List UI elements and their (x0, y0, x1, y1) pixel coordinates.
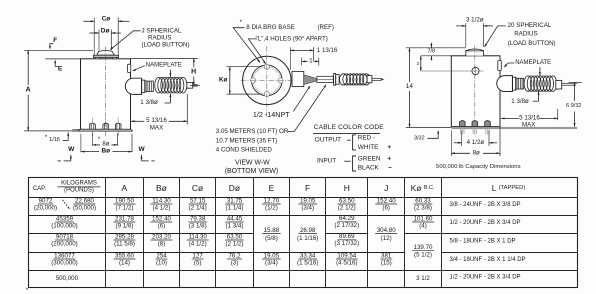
svg-text:10.7 METERS (35 FT): 10.7 METERS (35 FT) (216, 137, 278, 144)
svg-text:203.20: 203.20 (152, 233, 171, 240)
svg-text:Kø: Kø (219, 77, 228, 84)
bottom view: hex collar plates (334, 73, 336, 85)
svg-text:(REF): (REF) (318, 24, 335, 31)
svg-text:GREEN: GREEN (358, 155, 381, 162)
dimension 8 dia (right): extension lines (450, 131, 452, 157)
svg-text:(5/8): (5/8) (265, 235, 278, 242)
svg-text:NAMEPLATE: NAMEPLATE (146, 62, 182, 68)
svg-text:5 13/16: 5 13/16 (146, 117, 167, 124)
svg-text:109.54: 109.54 (337, 252, 356, 259)
svg-text:*: * (45, 135, 48, 141)
svg-text:+: + (387, 144, 391, 151)
svg-text:F: F (305, 183, 310, 193)
svg-text:63.50: 63.50 (339, 197, 355, 204)
dimension A: vertical line with arrows and label (27, 50, 29, 85)
svg-text:VIEW W-W: VIEW W-W (235, 160, 270, 167)
svg-text:3.05 METERS (10 FT) OR: 3.05 METERS (10 FT) OR (216, 128, 289, 135)
label J spherical radius (load button) with leader (111, 31, 141, 50)
right view: gland flange (513, 77, 516, 90)
dimension Co: extension lines (93, 18, 95, 55)
svg-text:(1/2): (1/2) (265, 205, 278, 212)
svg-text:A: A (26, 87, 31, 94)
bottom view: centerlines (241, 79, 293, 81)
svg-text:5/8 - 18UNF - 2B X 1 DP: 5/8 - 18UNF - 2B X 1 DP (450, 239, 516, 245)
svg-text:MAX: MAX (150, 124, 163, 131)
svg-text:Cø: Cø (102, 16, 111, 23)
dimension to hole center (420, 56, 422, 71)
svg-text:22,680: 22,680 (75, 197, 94, 204)
svg-text:(3 1/8): (3 1/8) (189, 223, 207, 230)
svg-text:INPUT: INPUT (317, 158, 336, 165)
svg-text:NAMEPLATE: NAMEPLATE (515, 60, 551, 66)
svg-text:4 1/2ø: 4 1/2ø (467, 139, 485, 146)
svg-text:60.33: 60.33 (415, 197, 431, 204)
svg-text:(4 1/2): (4 1/2) (189, 241, 207, 248)
svg-text:33.34: 33.34 (300, 252, 316, 259)
dimension 14: extension lines (406, 47, 466, 49)
svg-text:76.2: 76.2 (228, 252, 241, 259)
svg-text:2: 2 (417, 61, 420, 66)
svg-text:3/32: 3/32 (414, 136, 425, 142)
svg-text:3/8 - 24UNF - 2B X 3/8 DP: 3/8 - 24UNF - 2B X 3/8 DP (450, 202, 521, 208)
svg-text:44.45: 44.45 (227, 215, 243, 222)
bottom view: four mounting holes L (264, 64, 269, 69)
svg-text:(3 17/32): (3 17/32) (334, 240, 359, 247)
svg-text:3/4 - 18UNF - 2B X 1 1/4 DP: 3/4 - 18UNF - 2B X 1 1/4 DP (450, 257, 526, 263)
dimension Bo (left): extension lines (80, 134, 82, 153)
svg-text:1 3/8ø: 1 3/8ø (511, 98, 529, 105)
dimension 1/16 (left base gap) (72, 128, 80, 130)
svg-text:295.28: 295.28 (115, 233, 134, 240)
svg-text:500,000 lb Capacity Dimensions: 500,000 lb Capacity Dimensions (436, 164, 521, 170)
svg-text:127: 127 (193, 252, 204, 259)
svg-text:190.50: 190.50 (115, 197, 134, 204)
left view: cable spring coil (155, 77, 163, 93)
svg-text:Cø: Cø (192, 183, 203, 193)
svg-text:(4 5/16): (4 5/16) (336, 260, 357, 267)
svg-text:(6): (6) (158, 223, 166, 230)
svg-text:RADIUS: RADIUS (514, 30, 537, 37)
svg-text:OUTPUT: OUTPUT (315, 136, 341, 143)
svg-text:*: * (240, 20, 243, 26)
svg-text:L (TAPPED): L (TAPPED) (492, 183, 525, 193)
dimension A: extension lines (24, 49, 93, 51)
dimension 1: ticks arrows label (301, 58, 303, 66)
svg-text:Dø: Dø (101, 27, 110, 34)
bottom view: cable spring coil (340, 74, 348, 85)
svg-text:CAP.: CAP. (33, 186, 47, 192)
svg-text:Dø: Dø (229, 183, 240, 193)
svg-text:(1 5/16): (1 5/16) (297, 260, 318, 267)
svg-text:14: 14 (406, 83, 414, 90)
svg-text:45359: 45359 (56, 215, 74, 222)
svg-text:(12): (12) (381, 235, 392, 242)
left view: bottom plate edge (81, 130, 131, 131)
svg-text:J: J (384, 183, 388, 193)
svg-text:1/2 -14NPT: 1/2 -14NPT (253, 110, 290, 119)
bottom view: conduit flange (292, 71, 304, 86)
svg-text:6 9/32: 6 9/32 (566, 103, 581, 109)
svg-text:E: E (58, 66, 63, 73)
right view: cable spring coil (524, 76, 532, 92)
svg-text:8 DIA BRG BASE: 8 DIA BRG BASE (246, 24, 294, 31)
svg-text:(LOAD BUTTON): (LOAD BUTTON) (142, 42, 190, 49)
svg-text:1/2 - 20UNF - 2B X 3/4 DP: 1/2 - 20UNF - 2B X 3/4 DP (450, 220, 521, 226)
dimension 8o (left): extension lines (92, 133, 94, 146)
dimension 4 1/2 dia: arrows and label (454, 142, 462, 144)
svg-text:63.50: 63.50 (227, 233, 243, 240)
left view: load button (97, 51, 114, 56)
svg-text:(2 17/32): (2 17/32) (334, 222, 359, 229)
bottom view: outer circle (bearing base) (243, 56, 291, 104)
svg-text:20 SPHERICAL: 20 SPHERICAL (508, 22, 552, 29)
svg-text:(2 3/8): (2 3/8) (414, 205, 432, 212)
dimension 5 13/16 MAX (right) (501, 117, 519, 119)
svg-text:114.30: 114.30 (152, 197, 171, 204)
svg-text:(3/4): (3/4) (265, 260, 278, 267)
svg-text:"L",4 HOLES (90° APART): "L",4 HOLES (90° APART) (256, 36, 328, 43)
right view: load button boss (466, 49, 484, 56)
svg-text:381: 381 (381, 252, 392, 259)
svg-text:W: W (139, 146, 146, 153)
svg-text:(11 5/8): (11 5/8) (114, 241, 135, 248)
label 8 DIA BRG BASE with leader (233, 28, 260, 63)
svg-text:MAX: MAX (522, 121, 535, 128)
svg-text:(BOTTOM VIEW): (BOTTOM VIEW) (225, 168, 278, 175)
svg-text:(300,000): (300,000) (51, 260, 78, 267)
right view: cable gland boss (497, 76, 513, 92)
svg-text:(50,000): (50,000) (73, 205, 96, 212)
table: vertical grid lines (105, 178, 107, 288)
left view: cable gland boss (125, 78, 141, 94)
svg-text:355.60: 355.60 (115, 252, 134, 259)
left view: nameplate tab (128, 64, 131, 72)
svg-text:(15): (15) (381, 260, 392, 267)
svg-text:89.69: 89.69 (339, 233, 355, 240)
svg-text:H: H (191, 68, 196, 75)
svg-text:(4 1/2): (4 1/2) (153, 205, 171, 212)
svg-text:101.60: 101.60 (414, 215, 433, 222)
svg-text:9072: 9072 (39, 197, 53, 204)
svg-text:(POUNDS): (POUNDS) (64, 188, 94, 194)
svg-text:(20,000): (20,000) (34, 205, 57, 212)
bottom view: conduit barrel (317, 76, 333, 82)
svg-text:H: H (344, 183, 350, 193)
svg-text:8ø: 8ø (473, 150, 480, 157)
right view: coil end cap (556, 80, 562, 89)
dimension H: extension line (131, 57, 198, 59)
svg-text:19.05: 19.05 (264, 252, 280, 259)
bottom view: coil end cap (367, 76, 372, 83)
svg-text:−: − (388, 165, 392, 172)
label NAMEPLATE (left) with leader (133, 66, 145, 71)
svg-text:(4): (4) (419, 223, 427, 230)
dimension 1 3/8 dia (right) (539, 67, 541, 76)
svg-text:19.05: 19.05 (300, 197, 316, 204)
svg-text:12.70: 12.70 (264, 197, 280, 204)
svg-text:Bø: Bø (101, 148, 110, 155)
dimension 7/8 (430, 43, 432, 48)
bottom view: strain relief cone (304, 75, 317, 85)
svg-text:WHITE: WHITE (358, 144, 379, 151)
svg-text:(10): (10) (156, 260, 167, 267)
svg-text:(3): (3) (231, 260, 239, 267)
dimension Do: extension lines (98, 30, 100, 51)
right view: mounting base band (451, 127, 577, 129)
svg-text:31.75: 31.75 (227, 197, 243, 204)
bottom view: corner relief marks (275, 70, 277, 72)
dimension 1 13/16: arrows and label (290, 49, 313, 51)
table: horizontal grid lines (29, 197, 578, 199)
svg-text:F: F (53, 37, 57, 44)
svg-text:(1 1/16): (1 1/16) (297, 235, 318, 242)
dimension 14: vertical line with arrows and label (409, 48, 411, 82)
svg-text:(200,000): (200,000) (51, 241, 78, 248)
dimension 3 1/2 dia: arrows and label (456, 25, 466, 27)
svg-text:4 COND SHIELDED: 4 COND SHIELDED (216, 147, 273, 154)
svg-text:1 13/16: 1 13/16 (317, 47, 338, 54)
svg-text:26.98: 26.98 (300, 227, 316, 234)
svg-text:231.78: 231.78 (115, 215, 134, 222)
svg-text:1/2 - 20UNF - 2B X 3/4 DP: 1/2 - 20UNF - 2B X 3/4 DP (450, 275, 521, 281)
svg-text:114.30: 114.30 (188, 233, 207, 240)
label L 4 holes with leader (249, 39, 266, 64)
right view: nameplate tab (498, 60, 502, 70)
svg-text:BLACK: BLACK (358, 165, 380, 172)
svg-text:W: W (68, 146, 75, 153)
left view: gland threaded section (146, 81, 153, 91)
svg-text:J SPHERICAL: J SPHERICAL (142, 27, 182, 34)
left view: load cell body (81, 59, 131, 130)
left view: mounting studs (90, 123, 96, 129)
svg-text:A: A (121, 183, 127, 193)
svg-text:15.88: 15.88 (264, 227, 280, 234)
dimension E: bracket and label (45, 58, 80, 60)
label cable length with leader (288, 85, 326, 132)
right view: mounting studs (460, 121, 466, 127)
svg-text:Kø B.C.: Kø B.C. (411, 183, 435, 193)
left view: vertical centerline (105, 47, 107, 138)
svg-text:(5): (5) (194, 260, 202, 267)
right view: through hole (472, 67, 479, 74)
svg-text:(2 1/2): (2 1/2) (338, 205, 356, 212)
dimension 8o (left): arrows and label (93, 144, 101, 146)
svg-text:(8): (8) (158, 241, 166, 248)
label 20 spherical radius with leader (485, 26, 506, 47)
svg-text:*: * (98, 137, 101, 143)
svg-text:1: 1 (309, 58, 313, 65)
svg-text:1 3/8ø: 1 3/8ø (140, 99, 158, 106)
dimension H: vertical line with arrows and label (193, 58, 195, 67)
right view: cable (562, 82, 578, 84)
bottom view: cable (372, 77, 382, 79)
bottom view: inner circle (251, 65, 282, 96)
svg-text:(14): (14) (119, 260, 130, 267)
svg-text:79.38: 79.38 (190, 215, 206, 222)
dimension 5 13/16 MAX (left) (131, 120, 144, 122)
svg-text:254: 254 (156, 252, 167, 259)
svg-text:RED -: RED - (358, 135, 375, 142)
svg-text:3 1/2: 3 1/2 (416, 275, 430, 282)
svg-text:(1 1/4): (1 1/4) (226, 205, 244, 212)
left view: cable (193, 83, 198, 85)
dimension Ko: vertical arrows and label (229, 67, 231, 94)
svg-text:7/8: 7/8 (427, 49, 435, 55)
svg-text:(6): (6) (382, 205, 390, 212)
svg-text:CABLE COLOR CODE: CABLE COLOR CODE (314, 124, 384, 131)
svg-text:(100,000): (100,000) (51, 223, 78, 230)
dimension Ko: extension lines (227, 66, 262, 68)
svg-text:Bø: Bø (156, 183, 167, 193)
right view: load cell body (451, 56, 500, 127)
svg-text:+: + (387, 155, 391, 162)
left view: cable gland flange (142, 80, 145, 92)
dimension Bo (left): arrows and label (81, 151, 99, 153)
dimension Do: arrows and label (90, 32, 100, 34)
svg-text:64.29: 64.29 (339, 215, 355, 222)
svg-text:3 1/2ø: 3 1/2ø (466, 17, 484, 24)
left view: coil end cap (187, 82, 193, 88)
dimension 8 dia (right): arrows and label (451, 152, 470, 154)
bottom view: bolt circle centerline (253, 67, 280, 94)
svg-text:RADIUS: RADIUS (148, 34, 171, 41)
svg-text:152.40: 152.40 (377, 197, 396, 204)
svg-text:500,000: 500,000 (56, 275, 79, 282)
svg-text:152.40: 152.40 (152, 215, 171, 222)
svg-text:(LOAD BUTTON): (LOAD BUTTON) (508, 40, 556, 47)
table: outer border (29, 178, 578, 288)
svg-text:304.80: 304.80 (377, 227, 396, 234)
right view: gland threaded section (517, 78, 524, 89)
dimension 1 3/8 dia (left): arrows and label (169, 70, 171, 77)
svg-text:E: E (269, 183, 275, 193)
right view: vertical centerline (474, 46, 476, 134)
svg-text:(7 1/2): (7 1/2) (116, 205, 134, 212)
svg-text:(2 1/4): (2 1/4) (189, 205, 207, 212)
svg-text:KILOGRAMS: KILOGRAMS (61, 181, 97, 187)
svg-text:139.70: 139.70 (414, 244, 433, 251)
svg-text:(1 3/4): (1 3/4) (226, 223, 244, 230)
dimension 3/32 (427, 132, 438, 139)
dimension Co: arrows and label (83, 20, 94, 22)
svg-text:(2 1/2): (2 1/2) (226, 241, 244, 248)
svg-text:1/16: 1/16 (49, 137, 60, 143)
dimension 6 9/32 (569, 81, 582, 83)
dimension 1 13/16: extension lines (289, 47, 291, 70)
svg-text:57.15: 57.15 (190, 197, 206, 204)
svg-text:(9 1/8): (9 1/8) (116, 223, 134, 230)
svg-text:8ø: 8ø (102, 142, 109, 148)
label NAMEPLATE (right) with leader (505, 63, 515, 67)
hole center extension line (421, 70, 484, 72)
svg-text:136077: 136077 (54, 252, 75, 259)
svg-text:90718: 90718 (56, 233, 74, 240)
dimension 3 1/2 dia: extension lines (465, 23, 467, 47)
svg-text:(3/4): (3/4) (301, 205, 314, 212)
svg-text:(5 1/2): (5 1/2) (414, 252, 432, 259)
label 1/2-14NPT with leader (293, 86, 310, 111)
dimension 4 1/2 dia: extension lines (461, 131, 463, 147)
